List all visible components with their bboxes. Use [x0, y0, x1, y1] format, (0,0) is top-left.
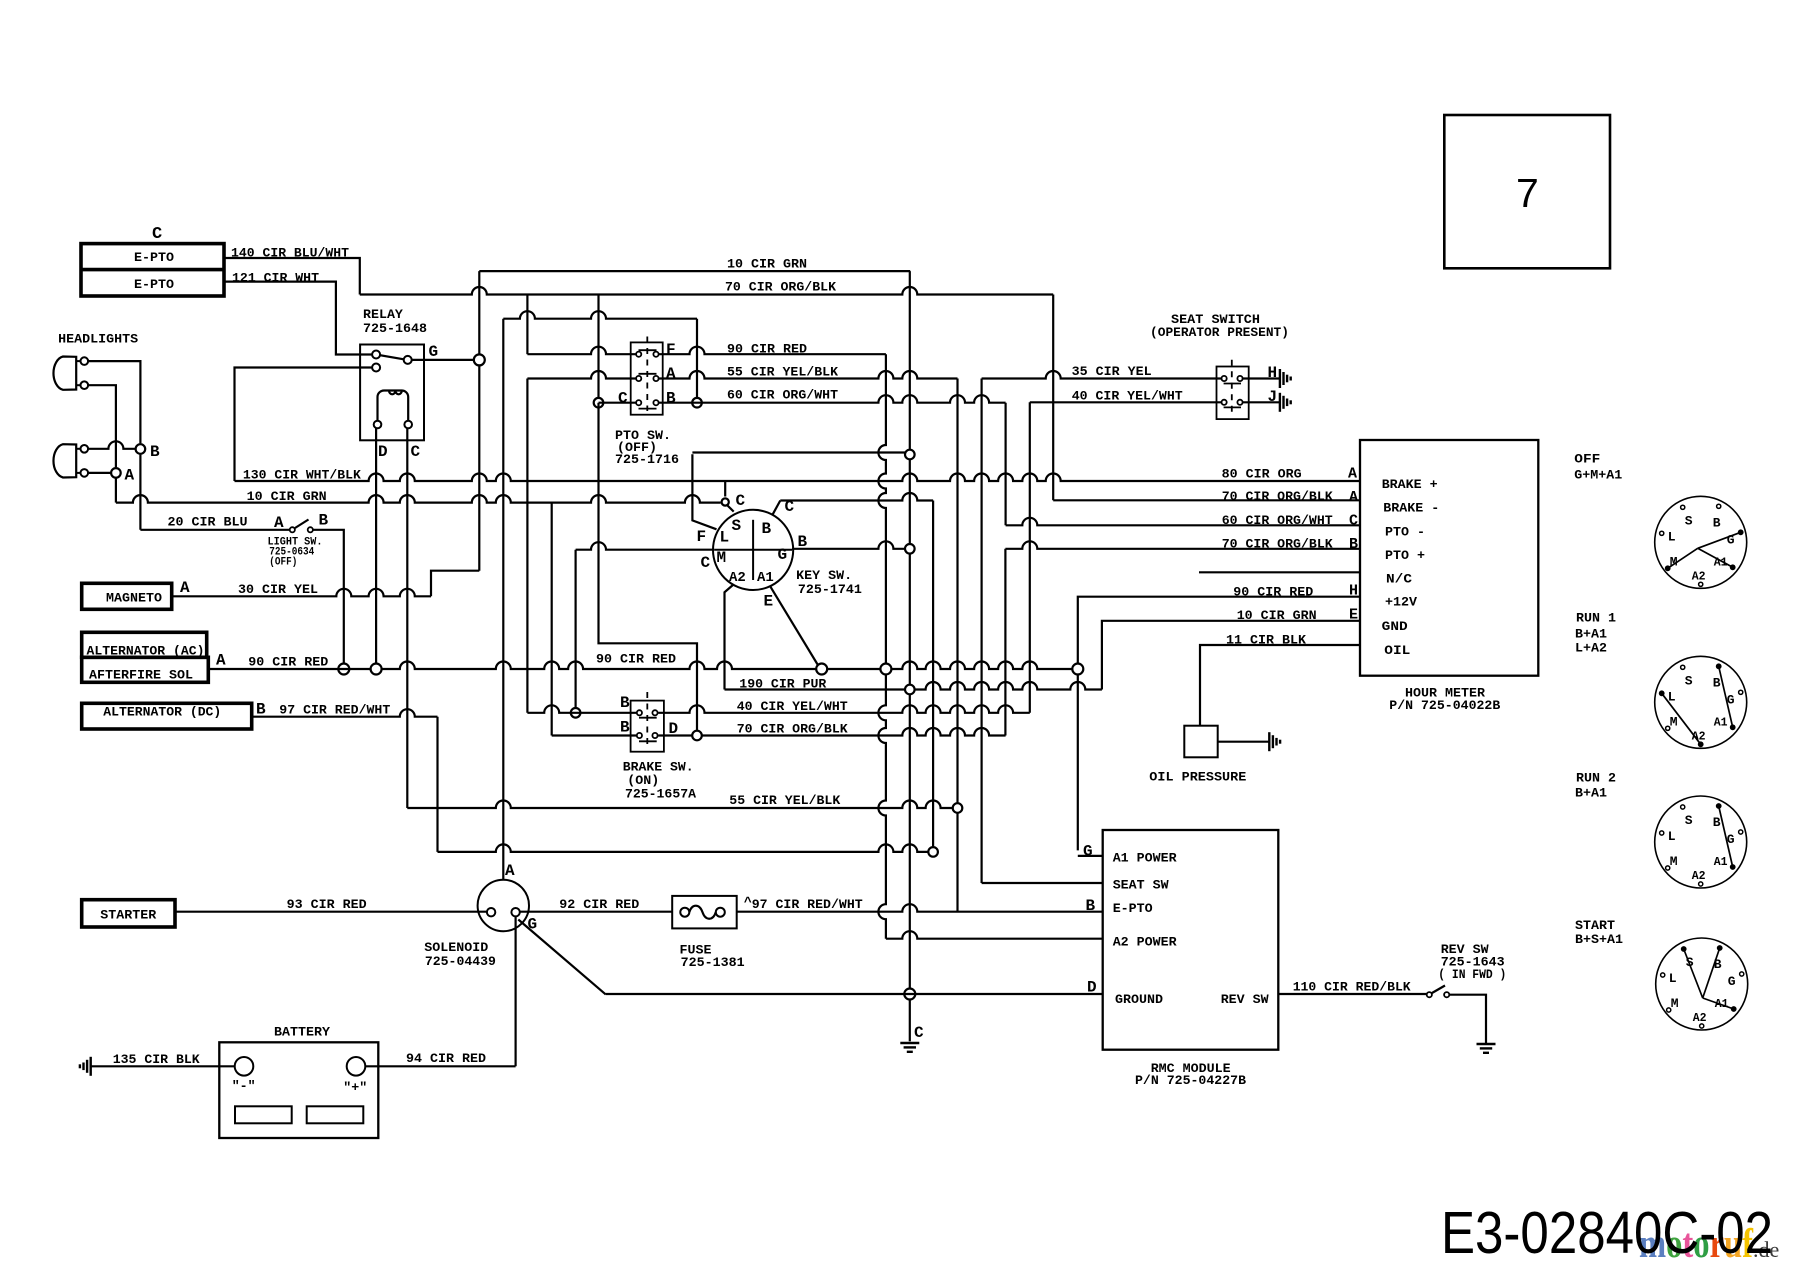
wire 97 CIR RED/WHT from alternator DC [252, 701, 438, 719]
junction 55 row / E-PTO riser [953, 803, 963, 813]
svg-text:L: L [1668, 829, 1676, 844]
junction 90-RED vertical / main row [880, 664, 891, 675]
wire 10 CIR GRN to hour meter E [1102, 608, 1360, 690]
wire 97 vertical down to A1 bus [436, 717, 438, 852]
svg-text:C: C [1349, 513, 1358, 530]
svg-text:B+S+A1: B+S+A1 [1575, 932, 1623, 947]
svg-text:H: H [1349, 583, 1358, 600]
solenoid pin labels [505, 862, 537, 934]
svg-text:MAGNETO: MAGNETO [106, 591, 162, 606]
ALTERNATOR (DC) box [82, 703, 252, 729]
junction 90-RED / hour-H riser [1072, 664, 1083, 675]
wire 40 CIR YEL/WHT row to seat switch [1030, 388, 1222, 403]
wire N/C row [1199, 571, 1360, 573]
svg-text:BRAKE -: BRAKE - [1383, 500, 1439, 515]
wire 70 CIR ORG/BLK top bus [360, 280, 1053, 295]
wire A1 accessory row [438, 844, 928, 851]
node A junction [111, 467, 134, 485]
svg-text:H: H [1268, 364, 1278, 382]
svg-text:M: M [717, 549, 727, 567]
svg-text:ALTERNATOR (DC): ALTERNATOR (DC) [103, 705, 221, 720]
svg-text:+12V: +12V [1385, 595, 1417, 610]
svg-text:55 CIR YEL/BLK: 55 CIR YEL/BLK [727, 365, 838, 380]
PTO switch dashed actuator [639, 337, 657, 412]
svg-text:B: B [1713, 675, 1721, 690]
RMC pin SEAT SW [982, 878, 1169, 893]
svg-text:10 CIR GRN: 10 CIR GRN [727, 257, 807, 272]
svg-text:B: B [1086, 897, 1096, 915]
wire relay G pin to green bus junction [411, 359, 479, 361]
junction 190 row / green bus [905, 685, 915, 695]
ALTERNATOR (AC) box [82, 632, 207, 658]
wire key-C row east to A1 bus node [780, 493, 933, 500]
wire solenoid to battery positive riser [514, 916, 516, 1066]
relay coil [378, 391, 409, 422]
svg-text:55 CIR YEL/BLK: 55 CIR YEL/BLK [729, 793, 840, 808]
battery cell plates [235, 1106, 363, 1123]
wire seat switch H to chassis ground [1243, 364, 1280, 382]
wire 90 CIR RED main row [208, 651, 1078, 669]
svg-text:HEADLIGHTS: HEADLIGHTS [58, 332, 138, 347]
relay switch pin top-left [372, 351, 380, 359]
svg-text:G+M+A1: G+M+A1 [1574, 467, 1622, 482]
ignition diagram RUN 1 [1655, 656, 1747, 748]
rev switch pin 2 [1444, 992, 1449, 997]
svg-text:B: B [620, 694, 630, 712]
solenoid pins [487, 908, 520, 916]
OIL PRESSURE label [1149, 770, 1246, 785]
wire 55 CIR YEL/BLK row [407, 793, 957, 808]
svg-text:93 CIR RED: 93 CIR RED [287, 897, 367, 912]
svg-text:P/N 725-04227B: P/N 725-04227B [1135, 1073, 1246, 1088]
ground oil pressure [1269, 732, 1280, 751]
RMC module box [1103, 830, 1279, 1050]
svg-text:B: B [319, 511, 329, 529]
wire 93 CIR RED [175, 897, 487, 912]
relay switch blade [380, 355, 404, 359]
junction L row / green bus [905, 450, 915, 460]
svg-text:97 CIR RED/WHT: 97 CIR RED/WHT [752, 897, 863, 912]
rev switch blade [1432, 986, 1445, 994]
svg-text:A: A [505, 862, 515, 880]
RMC pin A2 POWER [886, 931, 1177, 949]
svg-text:E-PTO: E-PTO [134, 277, 174, 292]
wire PTO B left [599, 402, 637, 404]
svg-text:S: S [732, 517, 742, 535]
ignition diagram START [1656, 938, 1748, 1030]
svg-text:725-1657A: 725-1657A [625, 786, 696, 801]
svg-text:"+": "+" [343, 1080, 367, 1095]
wire A1 bus vertical [932, 501, 934, 847]
wire 90-RED corner down at F row east [878, 354, 885, 663]
RUN 1 position label [1575, 611, 1616, 656]
SOLENOID 725-04439 labels [424, 940, 496, 969]
svg-text:E-PTO: E-PTO [1113, 901, 1153, 916]
svg-text:70 CIR ORG/BLK: 70 CIR ORG/BLK [737, 721, 848, 736]
hour meter row labels [1382, 477, 1440, 658]
seat switch dashed actuator [1224, 360, 1241, 414]
STARTER box [82, 900, 175, 927]
fuse box [672, 896, 737, 929]
svg-text:(OPERATOR PRESENT): (OPERATOR PRESENT) [1150, 325, 1289, 340]
MAGNETO box [82, 583, 172, 609]
wire key M to 40 row [576, 542, 715, 707]
junction green bus / RMC ground row [904, 989, 915, 1000]
key switch cross bars [714, 520, 792, 580]
svg-text:F: F [697, 528, 707, 546]
hour meter pin letters [1348, 466, 1358, 624]
svg-text:RELAY: RELAY [363, 307, 403, 322]
junction relay-D / 90 CIR RED [371, 664, 382, 675]
svg-text:C: C [411, 443, 421, 461]
RMC pin REV SW [1221, 992, 1269, 1007]
wire seat switch J to chassis ground [1243, 388, 1280, 406]
rev switch pin 1 [1427, 992, 1432, 997]
wire 10 CIR GRN top bus [479, 257, 910, 272]
ground seat switch J [1280, 393, 1291, 412]
sheet number 7 box [1444, 115, 1610, 268]
junction light-switch / 90 CIR RED [338, 664, 349, 675]
HEADLIGHTS label [58, 332, 138, 347]
svg-text:135 CIR BLK: 135 CIR BLK [113, 1052, 200, 1067]
brake switch dashed actuator [639, 692, 657, 748]
drawing number E3-02840C-02 [1441, 1200, 1773, 1266]
svg-text:A2: A2 [1692, 570, 1706, 583]
ignition diagram RUN 2 [1655, 796, 1747, 888]
wire 121 CIR WHT from E-PTO to relay pin [224, 271, 373, 355]
svg-text:GND: GND [1382, 619, 1408, 634]
svg-text:D: D [378, 443, 388, 461]
wire 110 CIR RED/BLK [1278, 980, 1427, 995]
wire brake-B riser [551, 503, 553, 736]
svg-text:N/C: N/C [1386, 571, 1412, 586]
wire key top-right C contact [773, 498, 795, 516]
svg-text:L: L [1669, 971, 1677, 986]
svg-text:E: E [1349, 606, 1358, 623]
svg-text:D: D [669, 720, 679, 738]
svg-text:94 CIR RED: 94 CIR RED [406, 1051, 486, 1066]
svg-text:725-1648: 725-1648 [363, 321, 427, 336]
svg-text:A2: A2 [1693, 1012, 1707, 1025]
junction M riser / 40 row [571, 708, 581, 718]
START position label [1575, 918, 1623, 947]
wire green bus to chassis ground [910, 1000, 924, 1043]
svg-text:B: B [150, 443, 160, 461]
wire 30 CIR YEL magneto pin A [172, 571, 480, 597]
svg-text:C: C [701, 554, 711, 572]
wire PTO-F feed from 70 bus [526, 295, 528, 355]
brake switch box [631, 701, 664, 752]
svg-text:B: B [1349, 536, 1358, 553]
svg-text:20 CIR BLU: 20 CIR BLU [168, 514, 248, 529]
wire key A1/E contact diagonal [771, 587, 819, 666]
PTO pins row F [636, 341, 676, 359]
wire key L contact [692, 454, 716, 546]
svg-text:90 CIR RED: 90 CIR RED [248, 655, 328, 670]
svg-text:M: M [1670, 854, 1678, 869]
wire PTO A right 55 CIR YEL/BLK [659, 365, 958, 380]
key C pin [722, 492, 746, 510]
svg-text:G: G [778, 546, 788, 564]
svg-text:F: F [666, 341, 676, 359]
svg-text:.de: .de [1753, 1237, 1779, 1262]
svg-text:G: G [1728, 974, 1736, 989]
wire 90 CIR RED to hour meter H [1078, 585, 1360, 664]
AFTERFIRE SOL box [82, 657, 209, 682]
wire 60-ORG/WHT feed from 70 bus [597, 295, 599, 398]
wire PTO A down to brake row [526, 379, 528, 713]
light switch pin A [274, 514, 295, 532]
svg-text:60 CIR ORG/WHT: 60 CIR ORG/WHT [727, 388, 838, 403]
wire green bus main vertical [909, 271, 911, 988]
key switch external labels [701, 533, 808, 611]
PTO pins row A [636, 365, 676, 383]
svg-text:G: G [1083, 843, 1093, 861]
svg-text:^: ^ [744, 895, 752, 910]
SEAT SWITCH label [1150, 312, 1289, 340]
svg-text:B: B [620, 719, 630, 737]
wire node A down to 10 CIR GRN [115, 479, 117, 503]
light switch blade [295, 520, 309, 529]
svg-text:A2: A2 [1692, 870, 1706, 883]
svg-text:KEY SW.: KEY SW. [796, 568, 852, 583]
wire key A2 contact to 190 CIR PUR [725, 585, 734, 690]
svg-text:G: G [429, 343, 439, 361]
svg-text:C: C [914, 1024, 924, 1042]
wire 94 CIR RED battery positive [365, 1051, 515, 1066]
junction E diagonal / 90 CIR RED [816, 664, 827, 675]
svg-text:E-PTO: E-PTO [134, 250, 174, 265]
junction A1 row / key-C riser [928, 847, 938, 857]
RMC pin A1 POWER [1078, 843, 1177, 866]
wire 11 CIR BLK to hour meter OIL [1200, 633, 1360, 726]
wire relay pin C down to 55 CIR YEL/BLK [406, 428, 408, 808]
svg-text:35 CIR YEL: 35 CIR YEL [1072, 364, 1152, 379]
junction relay-G / green vertical [474, 354, 485, 365]
wire 70 CIR ORG/BLK lower row [552, 721, 1006, 736]
svg-text:STARTER: STARTER [100, 908, 156, 923]
wire L row to ground bus [692, 451, 909, 453]
svg-text:725-1381: 725-1381 [681, 955, 745, 970]
relay coil pin C [404, 421, 412, 429]
wire relay lower-left pin to node 130 [235, 368, 373, 482]
wire solenoid branch horizontal [503, 311, 697, 319]
wire PTO F right 90 CIR RED [659, 342, 886, 357]
battery negative terminal [232, 1057, 256, 1094]
svg-text:RUN 2: RUN 2 [1576, 771, 1616, 786]
wire node B down to 20 CIR BLU [139, 455, 141, 530]
wire headlight1 bottom to node A [88, 385, 116, 467]
svg-text:"-": "-" [232, 1079, 256, 1094]
wire PTO B right 60 CIR ORG/WHT [659, 388, 1006, 403]
wire 90-RED vertical to A2 POWER [878, 675, 885, 939]
svg-text:REV SW: REV SW [1221, 992, 1269, 1007]
FUSE 725-1381 labels [680, 942, 745, 970]
svg-text:70 CIR ORG/BLK: 70 CIR ORG/BLK [725, 280, 836, 295]
svg-text:B: B [1713, 515, 1721, 530]
svg-text:110 CIR RED/BLK: 110 CIR RED/BLK [1293, 980, 1411, 995]
wire 190 CIR PUR row [725, 676, 1102, 691]
svg-text:A2 POWER: A2 POWER [1113, 934, 1177, 949]
wire PTO F left [527, 347, 636, 355]
svg-text:40 CIR YEL/WHT: 40 CIR YEL/WHT [1072, 388, 1183, 403]
wire 90-RED junction to RMC A1 POWER [1077, 675, 1079, 851]
wire key C pin vertical [724, 481, 726, 497]
motoruf.de watermark [1639, 1220, 1779, 1266]
PTO switch box [631, 342, 663, 414]
battery positive terminal [343, 1057, 367, 1095]
svg-text:OIL: OIL [1384, 643, 1410, 658]
svg-text:START: START [1575, 918, 1615, 933]
BATTERY box [219, 1025, 378, 1138]
svg-text:M: M [1671, 996, 1679, 1011]
E-PTO connector block C (two rows) [81, 225, 224, 296]
junction 60 row / solenoid branch [692, 398, 702, 408]
junction 60 row / vertical [594, 398, 604, 408]
OFF position label [1574, 451, 1622, 482]
wire green bus vertical upper [478, 271, 480, 571]
svg-text:( IN FWD ): ( IN FWD ) [1438, 967, 1506, 982]
oil pressure switch box [1184, 726, 1217, 758]
wire relay pin D down [375, 428, 377, 663]
svg-text:A: A [125, 467, 135, 485]
svg-text:GROUND: GROUND [1115, 992, 1163, 1007]
svg-text:B: B [762, 520, 772, 538]
svg-text:B: B [1713, 815, 1721, 830]
headlight lamp 1 [53, 357, 88, 390]
svg-text:motoruf: motoruf [1639, 1220, 1754, 1266]
svg-text:A1: A1 [1714, 716, 1728, 729]
svg-text:SEAT SW: SEAT SW [1113, 878, 1169, 893]
svg-text:BATTERY: BATTERY [274, 1025, 330, 1040]
svg-text:A: A [274, 514, 284, 532]
svg-text:L: L [1668, 529, 1676, 544]
wire PTO A left [527, 371, 636, 378]
wire 35 CIR YEL row [982, 364, 1222, 379]
svg-text:L: L [720, 529, 730, 547]
wire solenoid G diagonal to ground row [518, 920, 605, 995]
wire 40 riser to brake circuit [1029, 402, 1031, 713]
wire headlight2 top to node B [88, 441, 135, 449]
svg-text:B+A1: B+A1 [1575, 626, 1607, 641]
relay switch pin lower-left [372, 364, 380, 372]
wire headlight1 top to node B [88, 361, 140, 443]
svg-text:S: S [1685, 813, 1693, 828]
svg-text:A: A [666, 365, 676, 383]
ground battery negative [80, 1057, 91, 1076]
svg-text:A1: A1 [757, 570, 774, 586]
REV SW labels [1438, 942, 1506, 982]
solenoid body [478, 880, 529, 931]
wire 70 CIR ORG/BLK to hour meter B [1005, 536, 1360, 735]
relay 725-1648 box [360, 307, 427, 440]
seat switch box [1217, 367, 1249, 420]
HOUR METER label [1389, 686, 1500, 713]
svg-text:B: B [666, 389, 676, 407]
svg-text:A: A [1349, 489, 1358, 506]
wire seat feed vertical to RMC SEAT SW [980, 379, 982, 884]
svg-text:A: A [180, 579, 190, 597]
seat switch pins [1222, 376, 1243, 405]
svg-text:S: S [1685, 513, 1693, 528]
relay pin labels G D C [378, 343, 438, 461]
wire 97 CIR RED/WHT fuse output to RMC E-PTO [737, 895, 1103, 915]
KEY SW. 725-1741 label [796, 568, 862, 597]
RMC pin GROUND [606, 978, 1163, 1007]
node B junction [136, 443, 160, 461]
svg-text:J: J [1268, 388, 1278, 406]
wire 70 CIR ORG/BLK to hour meter A2 [1053, 295, 1360, 505]
svg-text:30 CIR YEL: 30 CIR YEL [238, 582, 318, 597]
svg-text:PTO +: PTO + [1385, 548, 1425, 563]
wire 20 CIR BLU to light switch A [140, 514, 290, 530]
wire 140 CIR BLU/WHT from E-PTO to 70-ORG/BLK bus [224, 246, 360, 295]
key switch circle [713, 510, 793, 590]
wire headlight2 bottom to node A [88, 472, 110, 474]
wire 40 CIR YEL/WHT lower row [527, 699, 1029, 714]
junction G row / green bus [905, 544, 915, 554]
wire light switch B to 90-RED junction [313, 530, 344, 664]
svg-text:97 CIR RED/WHT: 97 CIR RED/WHT [279, 702, 390, 717]
svg-text:70 CIR ORG/BLK: 70 CIR ORG/BLK [1222, 489, 1333, 504]
svg-text:A1: A1 [1714, 856, 1728, 869]
svg-text:90 CIR RED: 90 CIR RED [596, 651, 676, 666]
svg-text:RUN 1: RUN 1 [1576, 611, 1616, 626]
hour meter box [1360, 440, 1538, 676]
svg-text:OFF: OFF [1574, 451, 1600, 466]
svg-text:92 CIR RED: 92 CIR RED [559, 897, 639, 912]
svg-text:S: S [1685, 673, 1693, 688]
svg-text:B+A1: B+A1 [1575, 786, 1607, 801]
headlight lamp 2 [53, 444, 88, 477]
wire key G row to ground bus [792, 541, 910, 549]
PTO pins row B [618, 389, 676, 407]
BRAKE SW. (ON) 725-1657A labels [623, 760, 696, 802]
relay coil pin D [374, 421, 382, 429]
wire solenoid branch vertical [696, 319, 698, 398]
svg-text:C: C [618, 389, 628, 407]
wire 135 CIR BLK battery negative to ground [91, 1052, 235, 1067]
svg-text:BRAKE +: BRAKE + [1382, 477, 1438, 492]
svg-text:PTO -: PTO - [1385, 525, 1425, 540]
svg-text:725-1741: 725-1741 [798, 582, 862, 597]
ignition diagram OFF [1655, 496, 1747, 588]
svg-text:L+A2: L+A2 [1575, 641, 1607, 656]
light switch pin B [308, 511, 329, 532]
wire oil pressure to ground [1218, 741, 1270, 743]
wire 10 CIR GRN row [116, 489, 721, 504]
RUN 2 position label [1575, 771, 1616, 801]
svg-text:725-1716: 725-1716 [615, 452, 679, 467]
relay switch pin right G [404, 356, 412, 364]
fuse element [680, 906, 725, 919]
wire 130 CIR WHT/BLK row to hour meter A [235, 466, 1361, 482]
junction 70 row / interlock riser [692, 731, 702, 741]
LIGHT SW. label [268, 536, 323, 568]
svg-text:C: C [736, 492, 746, 510]
RMC MODULE label [1135, 1061, 1246, 1088]
wire 92 CIR RED [520, 897, 672, 912]
svg-text:7: 7 [1516, 170, 1539, 216]
wire 60 CIR ORG/WHT to hour meter C [1006, 403, 1360, 528]
ground green bus chassis [900, 1043, 919, 1052]
svg-text:M: M [1670, 714, 1678, 729]
svg-text:A1 POWER: A1 POWER [1113, 850, 1177, 865]
svg-text:(OFF): (OFF) [269, 557, 297, 569]
svg-text:725-04439: 725-04439 [425, 954, 496, 969]
svg-text:AFTERFIRE SOL: AFTERFIRE SOL [89, 667, 193, 682]
wire solenoid coil feed [502, 319, 504, 880]
